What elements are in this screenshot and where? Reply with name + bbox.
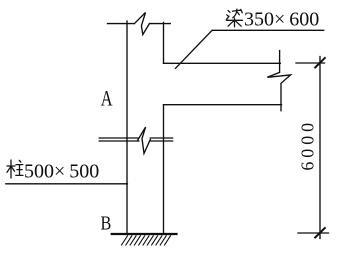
dimension tick bottom [315, 228, 325, 238]
ground line [112, 233, 177, 235]
column left edge (wire) [126, 21, 128, 234]
dimension line 6000 [319, 57, 321, 239]
column mid break double lines with zigzag [99, 127, 172, 154]
column right edge above beam (wire) [163, 23, 165, 64]
beam top edge (wire) [164, 62, 281, 64]
beam label leader line [176, 30, 324, 68]
svg-text:6000: 6000 [298, 119, 318, 171]
svg-text:B: B [101, 213, 112, 235]
column label CJK glyph ZHU (column) [7, 160, 23, 178]
column top break line with zigzag [108, 13, 171, 35]
beam end break line with zigzag [267, 51, 290, 111]
svg-text:A: A [101, 86, 113, 111]
dimension tick top [315, 58, 325, 68]
dimension extension line bottom [298, 232, 329, 234]
beam label CJK glyph LIANG (beam) [226, 9, 242, 27]
ground hatching [122, 236, 171, 245]
beam bottom edge (wire) [164, 104, 282, 106]
svg-text:350× 600: 350× 600 [244, 9, 319, 31]
svg-text:500× 500: 500× 500 [24, 160, 99, 182]
dimension extension line top [296, 62, 325, 64]
column label leader line [6, 183, 128, 185]
column right edge below beam (wire) [163, 105, 165, 234]
